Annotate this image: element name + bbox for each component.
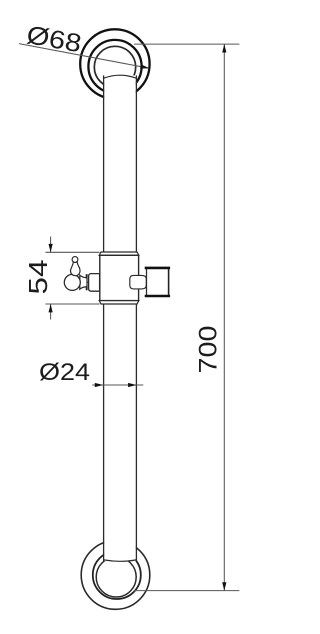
dim 54 lower arrow: [49, 304, 53, 312]
slider top collar: [99, 252, 139, 255]
top wall flange middle circle: [88, 40, 141, 93]
clamp knob spool: [80, 275, 87, 290]
svg-text:700: 700: [195, 326, 223, 374]
clamp knob axis tick: [87, 281, 89, 283]
bar right edge: [135, 75, 137, 561]
clamp lever vase: [71, 262, 80, 275]
leader line for diameter 68: [19, 44, 149, 68]
dim 54 upper line: [50, 237, 52, 253]
bar body fill: [104, 75, 136, 561]
dim 700 bottom extension line: [134, 590, 239, 592]
bar top end cap: [104, 75, 137, 78]
dim 24 left arrow: [95, 383, 103, 387]
dim 54 lower line: [50, 304, 52, 320]
dim 700 top extension line: [134, 43, 239, 45]
bottom wall flange middle circle: [93, 551, 141, 599]
svg-text:Ø24: Ø24: [39, 359, 90, 386]
dim 24 right arrow: [128, 383, 136, 387]
slider body: [100, 255, 139, 300]
dim 700 top arrow: [222, 44, 226, 52]
slider bottom collar: [99, 301, 139, 304]
dim 54 upper arrow: [49, 244, 53, 252]
dim 54 top extension line: [46, 251, 100, 253]
shower holder cup: [145, 268, 170, 296]
bar bottom end cap: [104, 560, 137, 561]
bar left edge: [103, 75, 105, 561]
dim 700 bottom arrow: [222, 582, 226, 590]
dim 24 line: [92, 384, 143, 386]
bottom wall flange inner circle: [96, 557, 136, 597]
clamp knob nut: [89, 274, 100, 292]
top wall flange inner circle: [94, 46, 135, 87]
dim 54 bottom extension line: [46, 303, 100, 305]
holder bump cylinder: [130, 275, 147, 289]
top wall flange outer circle: [80, 29, 149, 98]
dim 700 line: [223, 44, 225, 591]
clamp lever top ball: [72, 257, 78, 263]
svg-text:54: 54: [23, 260, 53, 295]
bottom wall flange outer circle: [81, 541, 150, 610]
leader arrowhead: [140, 64, 149, 68]
clamp knob ball: [64, 274, 80, 290]
